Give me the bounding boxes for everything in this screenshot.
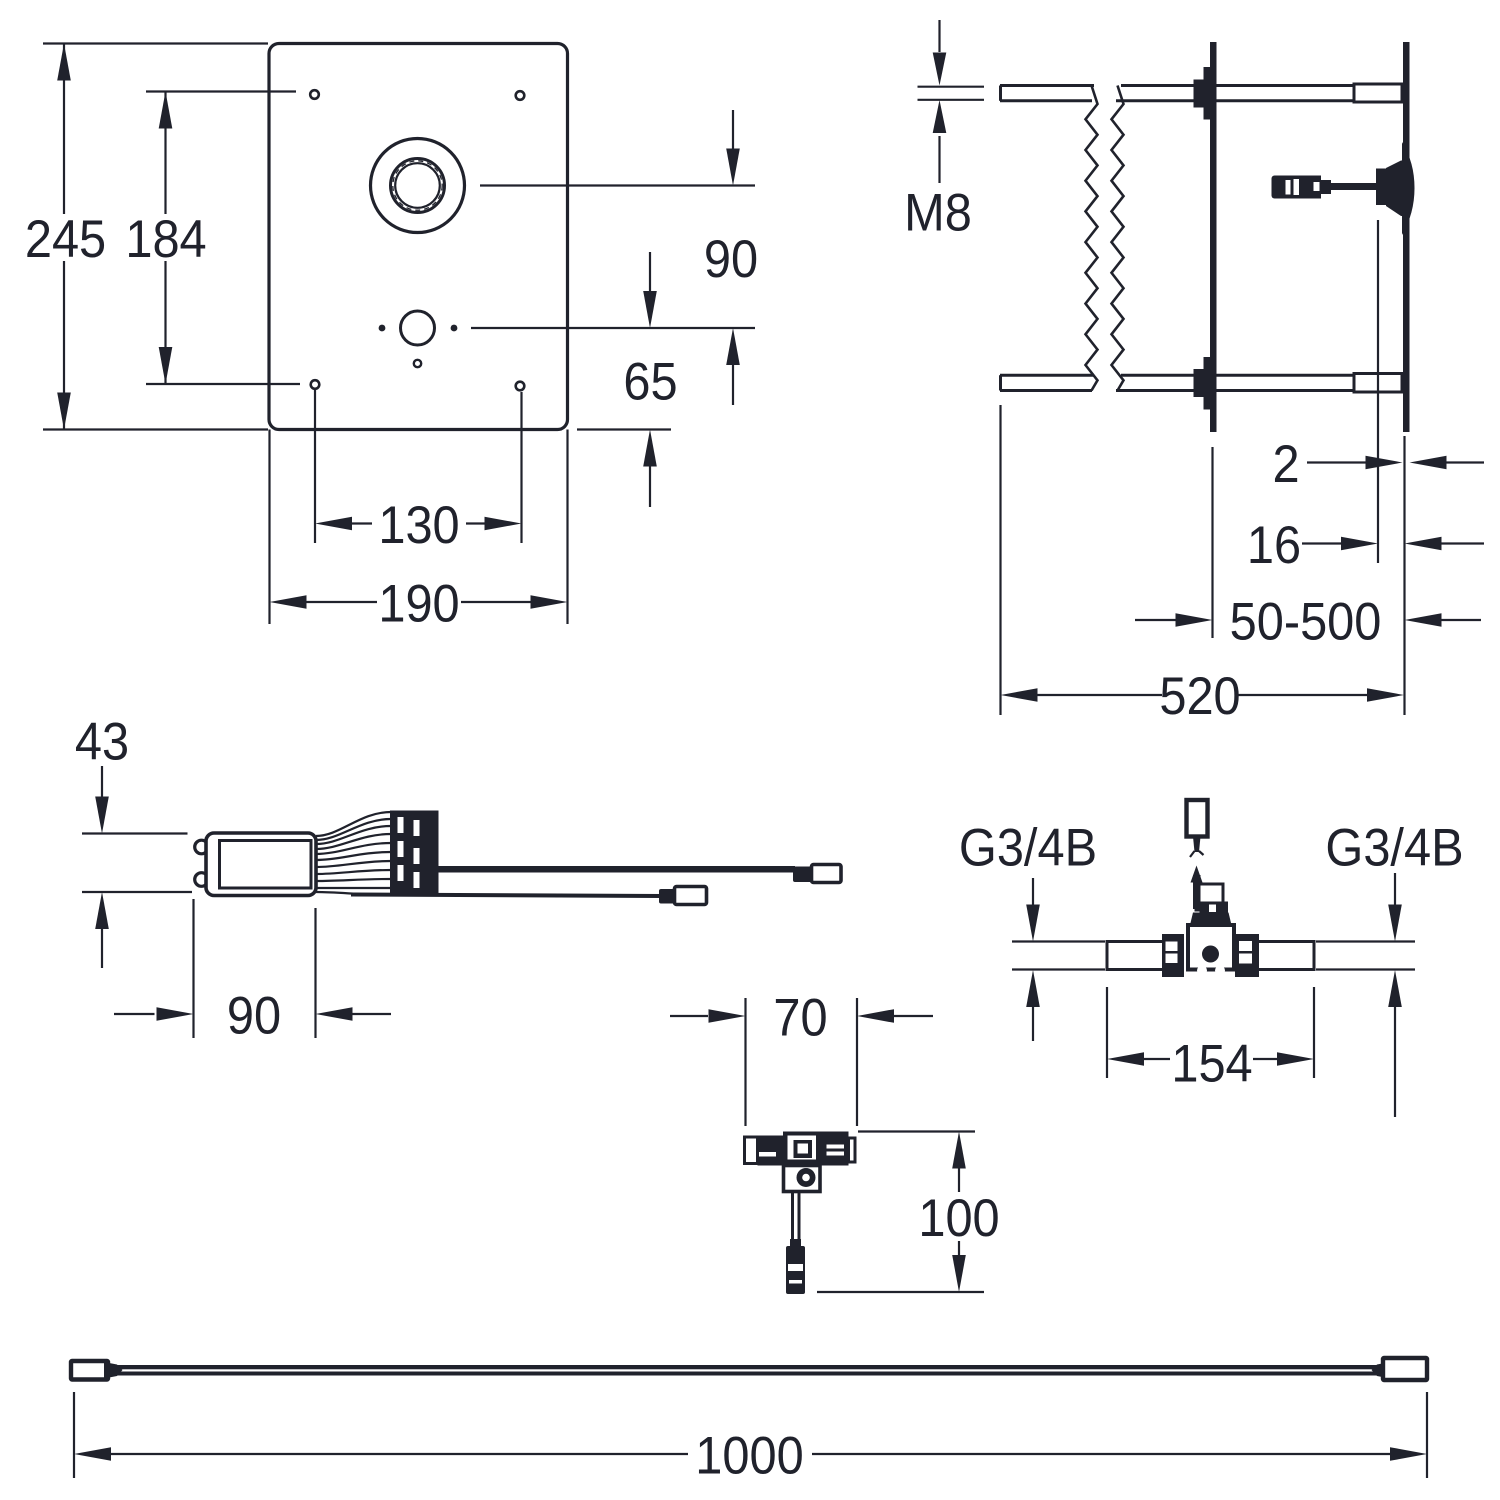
svg-text:100: 100 [918,1188,999,1247]
spout hole right dot [451,325,458,332]
electronic module housing [206,833,316,896]
dimension 100 arrows [952,1132,966,1293]
valve left nut [1162,934,1184,977]
extension line 65 bottom [577,428,671,430]
solenoid valve right port [820,1132,855,1166]
dimension text 90 module [227,985,281,1044]
dimension 16 arrows [1302,537,1484,551]
dimension text 90 [704,229,758,288]
leader line sensor window center [480,184,755,186]
hex nut and washer top rod [1194,67,1211,120]
cable 1000 [115,1365,1378,1376]
dimension 154 arrows [1107,1052,1314,1066]
dimension text 16 [1247,515,1301,574]
dimension G34 left arrows [1026,878,1040,1041]
extension line plate right edge [566,430,568,625]
mounting plate 190x245 front view [269,44,568,430]
extension line plate bottom sideview [1211,447,1213,638]
threaded rod top right segment [1116,86,1354,101]
extension line plate left edge [268,430,270,625]
dimension text 50-500 [1230,591,1382,650]
extension line solenoid right [856,998,858,1126]
dimension 43 arrows [95,766,109,968]
svg-text:520: 520 [1159,666,1240,725]
solenoid flow regulator [784,1166,821,1192]
sensor body [1376,161,1403,217]
extension line plate top [43,42,268,44]
dimension text 2 [1272,434,1299,493]
mounting plate side view [1210,42,1217,432]
dimension G34 right arrows [1388,873,1402,1117]
extension line module left [192,899,194,1038]
valve cable connector [659,887,707,905]
spout hole circle [401,311,435,345]
extension line module top [82,832,188,834]
svg-text:16: 16 [1247,515,1301,574]
dimension text 43 [75,711,129,770]
cable left connector [71,1361,123,1380]
dimension 245 [57,44,71,430]
spout hole bottom hole [414,360,421,367]
dimension text 130 [378,495,459,554]
threaded rod bottom end sleeve [1354,374,1402,393]
plate corner hole top-right [516,91,525,100]
sensor cable connector [793,865,841,883]
dimension text 70 [773,987,827,1046]
sensor cable [1331,183,1377,190]
adjustment arrow [1191,866,1203,883]
cable to valve [351,895,663,897]
extension lines G34 left [1012,942,1105,970]
svg-text:43: 43 [75,711,129,770]
dimension 1000 arrows [74,1447,1427,1461]
svg-text:G3/4B: G3/4B [1325,817,1463,876]
extension line solenoid bottom [817,1291,984,1293]
leader line spout hole center [471,327,755,329]
plate corner hole bottom-right [516,382,525,391]
dimension text 100 [918,1188,999,1247]
svg-text:G3/4B: G3/4B [959,817,1097,876]
dimension 65 arrows [643,252,657,507]
threaded rod bottom left segment [1000,375,1094,390]
dimension 2 arrows [1307,456,1484,470]
threaded rod bottom right segment [1116,375,1354,390]
dimension 50-500 arrows [1135,613,1481,627]
sensor cable plug [1272,176,1332,199]
extension line hole bottom-left [314,390,316,543]
solenoid top extension line [858,1130,975,1132]
dimension text 520 [1159,666,1240,725]
hex nut and washer bottom rod [1194,357,1211,410]
plate corner hole top-left [310,90,319,99]
sensor window outer circle [371,139,465,233]
svg-text:70: 70 [773,987,827,1046]
dimension 70 arrows [670,1009,933,1023]
dimension text 245 [25,209,106,268]
extension line pipe left end [1106,987,1108,1078]
svg-text:65: 65 [623,351,677,410]
plate corner hole bottom-left [311,380,320,389]
threaded rod top left segment [1000,86,1094,101]
svg-text:M8: M8 [904,182,972,241]
solenoid cable connector stack [786,1239,805,1294]
extension line module bottom [82,891,192,893]
dimension M8 arrows [918,20,985,183]
solenoid valve left port [745,1136,784,1166]
extension line plate bottom [43,428,268,430]
wire terminal block [390,811,439,895]
extension line sensor face [1377,220,1379,563]
valve bonnet [1190,902,1232,926]
extension line module right [314,908,316,1038]
extension line 184 bottom [146,383,300,385]
extension line solenoid left [744,998,746,1126]
finished wall side view [1403,42,1410,432]
dimension 190 [270,595,568,609]
dimension text 154 [1171,1033,1252,1092]
sensor dome on wall [1402,142,1415,235]
svg-text:184: 184 [125,209,206,268]
svg-text:50-500: 50-500 [1230,591,1382,650]
pipe right [1259,940,1314,971]
dimension 130 [315,517,522,531]
dimension 184 [159,92,173,385]
extension line cable right [1426,1392,1428,1478]
dimension text 190 [378,573,459,632]
dimension 90 module arrows [114,1007,391,1021]
dimension text 184 [125,209,206,268]
module mounting ears [195,840,209,886]
pipe left [1107,940,1162,971]
solenoid outlet tube [793,1192,800,1240]
dimension 90 arrows [726,110,740,405]
svg-text:90: 90 [704,229,758,288]
valve stem housing [1193,875,1223,910]
sensor window inner rings [391,159,445,213]
svg-text:190: 190 [378,573,459,632]
dimension text G3/4B left [959,817,1097,876]
break line right [1112,86,1124,391]
solenoid valve center body [783,1132,820,1166]
module label [220,841,312,889]
dimension text M8 [904,182,972,241]
svg-text:130: 130 [378,495,459,554]
threaded rod top end sleeve [1354,84,1402,102]
screwdriver symbol [1187,800,1208,857]
dimension text G3/4B right [1325,817,1463,876]
svg-text:245: 245 [25,209,106,268]
extension line hole bottom-right [520,392,522,543]
cable to sensor [438,866,795,873]
extension line cable left [73,1392,75,1478]
valve right nut [1235,934,1259,977]
extension line 184 top [146,90,296,92]
dimension text 1000 [695,1425,803,1484]
extension line rod left end [999,405,1001,715]
extension lines G34 right [1316,942,1415,970]
valve body [1188,925,1234,976]
svg-text:90: 90 [227,985,281,1044]
extension line wall face [1403,436,1405,715]
break line left [1086,86,1098,391]
svg-text:154: 154 [1171,1033,1252,1092]
svg-text:1000: 1000 [695,1425,803,1484]
wire fan-out [316,812,391,895]
cable right connector [1372,1358,1428,1380]
svg-text:2: 2 [1272,434,1299,493]
spout hole left dot [379,325,386,332]
dimension text 65 [623,351,677,410]
dimension 520 arrows [1001,688,1405,702]
extension line pipe right end [1313,987,1315,1078]
